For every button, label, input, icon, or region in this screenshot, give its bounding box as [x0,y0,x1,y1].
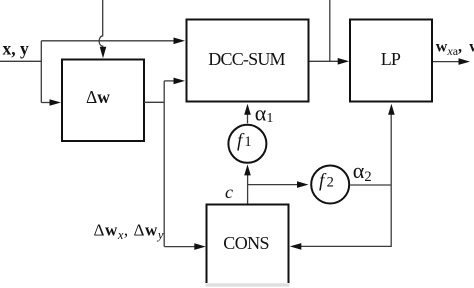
wire: f1 to DCC-SUM bottom [247,114,249,123]
arrowhead into DCC-SUM left (upper input) [174,38,186,45]
arrowhead into CONS left [194,243,206,250]
arrowhead of output [459,58,471,65]
block LP [350,20,432,102]
wire: vertical down to CONS right input [300,185,391,246]
arrowhead into CONS right [290,243,302,250]
circle f2 [311,166,349,204]
wire: DCC-SUM output to LP [310,60,340,62]
wire: x,y input horizontal [0,60,42,62]
svg-text:c: c [225,182,233,202]
circle f1 [228,125,266,163]
wire: bus to CONS left input [164,246,195,248]
svg-text:Δwx, Δwy: Δwx, Δwy [94,221,164,242]
wire: CONS top up to f1 [247,175,249,204]
svg-text:x, y: x, y [3,39,30,59]
svg-text:Δw: Δw [86,87,110,107]
arrowhead into f1 bottom [244,164,251,175]
wire: branch to f2 [248,184,298,186]
faded bottom edge of CONS [206,283,290,286]
wire: vertical from top edge joining DCC-LP wire [329,0,331,61]
wire: Δw output horizontal to bus [144,101,164,103]
arrowhead into Δw left [50,99,62,106]
wire: vertical from top edge with hop over horizontal wire [99,0,103,48]
block CONS (bottom open, cut by image edge) [207,205,289,284]
svg-text:1: 1 [244,134,251,150]
block DCC-SUM [187,20,309,102]
wire: LP output [433,61,460,63]
svg-text:DCC-SUM: DCC-SUM [208,49,285,69]
wire: vertical bus at x=164.6 [163,81,165,247]
wire: upper branch to DCC-SUM [41,40,175,42]
svg-text:LP: LP [381,49,401,69]
wire: lower branch to Δw [41,102,51,104]
wire: bus to DCC-SUM lower input [164,80,175,82]
arrowhead into Δw top [100,47,107,59]
wire: f2 output to vertical [350,184,391,186]
arrowhead into f2 left [297,181,309,188]
block Δw [62,60,144,142]
svg-text:2: 2 [327,175,334,191]
svg-text:CONS: CONS [223,233,269,253]
node: input branch vertical at x=41.3 [40,41,42,103]
arrowhead into DCC-SUM left (lower input) [174,78,186,85]
arrowhead into LP bottom [388,104,395,115]
wire: vertical up to LP bottom [390,114,392,185]
arrowhead into LP left [338,58,350,65]
arrowhead into DCC-SUM bottom [244,104,251,115]
